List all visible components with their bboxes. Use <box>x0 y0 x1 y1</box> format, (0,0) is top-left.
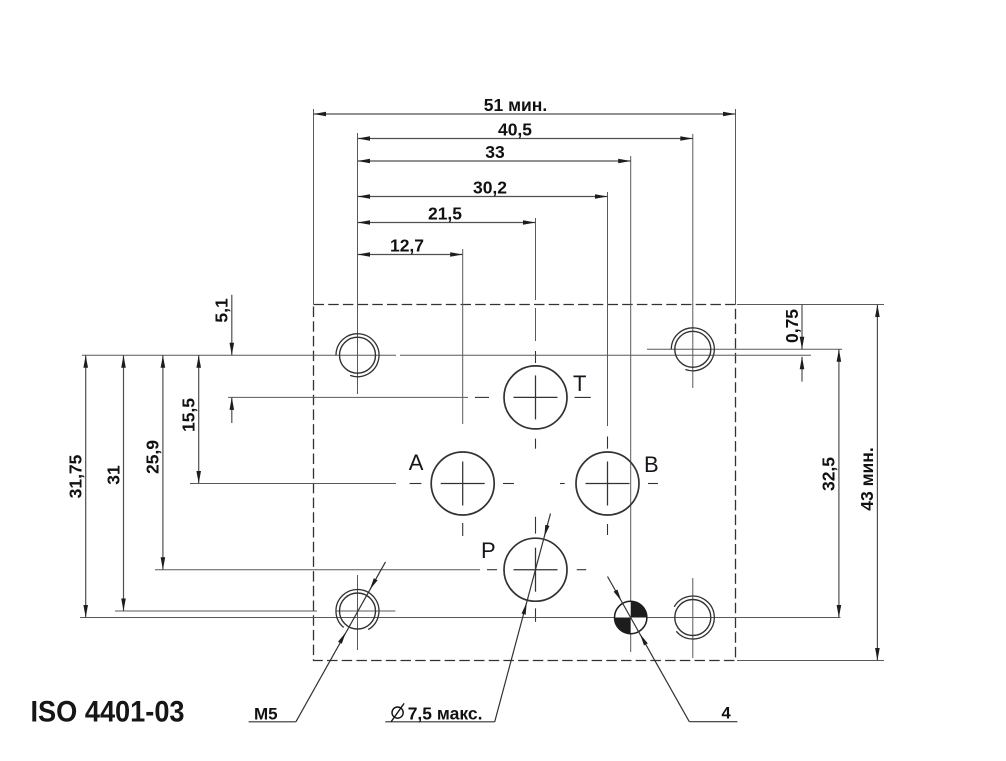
centerline row port T <box>228 396 591 398</box>
svg-text:43 мин.: 43 мин. <box>857 447 877 510</box>
svg-text:21,5: 21,5 <box>428 203 462 223</box>
dimension 32,5 (right bolt holes) <box>819 349 842 617</box>
label diameter 7,5 max with leader to port P <box>385 514 550 724</box>
dimension 31 (bottom-left bolt hole) <box>103 355 126 611</box>
dimension 31,75 (bottom-right hole row) <box>66 355 89 617</box>
extension line 33 to locating hole 4 <box>630 156 632 652</box>
svg-text:15,5: 15,5 <box>179 398 199 432</box>
extension plate top edge to right <box>737 304 884 306</box>
extension/centerline column ports T and P <box>535 218 537 622</box>
svg-text:4: 4 <box>722 705 732 723</box>
svg-text:B: B <box>644 452 659 477</box>
dimension 40,5 (bolt hole spacing) <box>358 119 693 141</box>
centerline row bottom-left bolt hole <box>115 610 395 612</box>
31.75 datum line through bottom-right holes <box>80 617 841 619</box>
svg-text:T: T <box>573 371 586 396</box>
centerline vertical bottom-left bolt hole <box>357 575 359 650</box>
svg-text:31: 31 <box>103 465 123 485</box>
extension/centerline column port B <box>607 192 609 535</box>
svg-text:P: P <box>481 538 496 563</box>
svg-text:31,75: 31,75 <box>66 454 86 498</box>
dimension 12,7 (port A) <box>358 235 463 256</box>
svg-text:40,5: 40,5 <box>498 119 532 139</box>
centerline row port P <box>155 569 586 571</box>
svg-text:A: A <box>409 450 424 475</box>
centerline row port A <box>190 483 514 485</box>
label 4 with leader to locating hole <box>608 577 738 723</box>
mounting hole M5 top-right <box>671 328 714 371</box>
centerline through top-right bolt hole <box>647 348 842 350</box>
centerline row port B <box>560 483 658 485</box>
svg-text:0,75: 0,75 <box>782 309 802 343</box>
svg-text:ISO 4401-03: ISO 4401-03 <box>31 695 185 729</box>
extension line plate right edge <box>735 109 737 305</box>
extension/centerline column right top bolt hole <box>692 134 694 388</box>
port T <box>504 366 586 429</box>
dimension 43 min (plate height) <box>857 305 880 661</box>
dimension 21,5 (ports T and P) <box>358 203 536 225</box>
dimension 30,2 (port B) <box>358 177 608 199</box>
port B <box>576 452 659 515</box>
svg-text:25,9: 25,9 <box>143 440 163 474</box>
dimension 15,5 (ports A and B) <box>179 355 202 483</box>
svg-text:5,1: 5,1 <box>212 298 232 323</box>
dimension 0,75 (bolt hole offset) <box>782 304 805 381</box>
dimension 25,9 (port P) <box>143 355 166 570</box>
extension/centerline column left bolt holes <box>357 133 359 394</box>
port A <box>409 450 494 515</box>
dimension 5,1 (port T) <box>212 295 235 423</box>
mounting hole M5 bottom-left <box>336 589 379 629</box>
svg-text:51 мин.: 51 мин. <box>484 95 547 115</box>
port P <box>481 538 567 601</box>
centerline vertical bottom-right bolt hole <box>692 578 694 658</box>
locating hole 4 (datum symbol) <box>615 601 647 633</box>
mounting plate outline (dashed) <box>314 305 736 661</box>
svg-text:M5: M5 <box>254 705 278 724</box>
dimension 33 (locating hole 4) <box>358 142 631 164</box>
extension plate bottom edge to right <box>737 660 884 662</box>
svg-text:30,2: 30,2 <box>473 177 507 197</box>
title ISO 4401-03 <box>31 695 185 729</box>
svg-text:32,5: 32,5 <box>819 457 839 491</box>
svg-text:12,7: 12,7 <box>390 235 424 255</box>
extension/centerline column port A <box>462 249 464 536</box>
datum centerline through top-left bolt hole <box>82 354 811 356</box>
label M5 with leader to bottom-left hole <box>249 562 386 724</box>
extension line plate left edge <box>313 109 315 305</box>
svg-text:7,5 макс.: 7,5 макс. <box>408 704 483 724</box>
svg-text:33: 33 <box>485 142 505 162</box>
mounting hole M5 bottom-right <box>674 596 714 639</box>
mounting hole M5 top-left <box>336 334 379 377</box>
dimension 51 min (plate width) <box>314 95 736 117</box>
